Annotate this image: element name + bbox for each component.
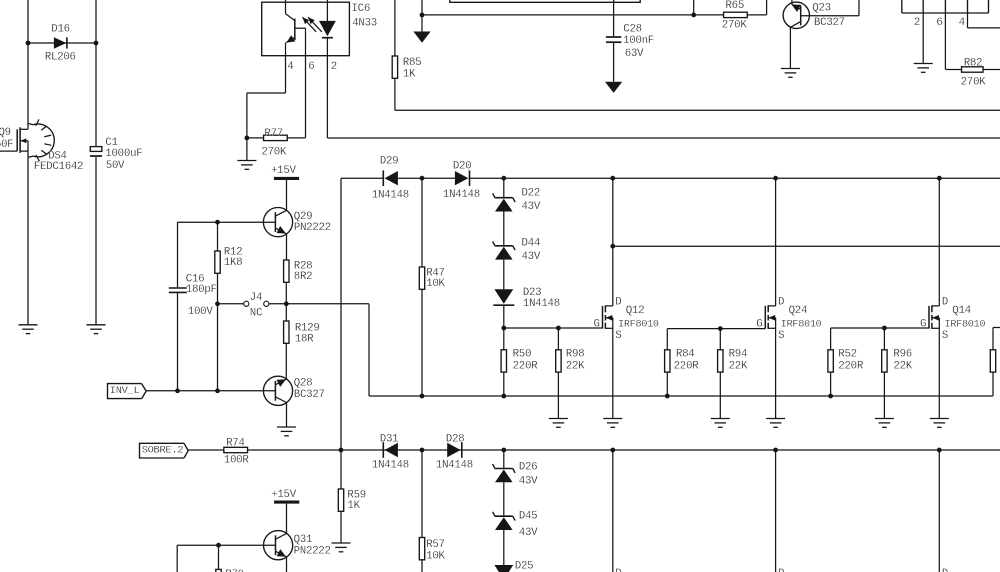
svg-text:270K: 270K <box>722 20 748 32</box>
svg-text:FEDC1642: FEDC1642 <box>34 161 83 173</box>
svg-text:R84: R84 <box>676 349 695 361</box>
svg-text:S: S <box>615 330 621 342</box>
svg-text:C28: C28 <box>623 24 642 36</box>
svg-text:IRF8010: IRF8010 <box>781 319 822 330</box>
svg-text:43V: 43V <box>519 527 538 539</box>
svg-text:1000uF: 1000uF <box>105 148 142 160</box>
svg-text:INV_L: INV_L <box>110 385 140 397</box>
svg-text:D: D <box>778 568 784 572</box>
svg-text:D45: D45 <box>519 511 538 523</box>
svg-text:D26: D26 <box>519 462 538 474</box>
svg-text:6: 6 <box>308 61 314 73</box>
svg-text:R50: R50 <box>513 348 532 360</box>
svg-text:D: D <box>615 568 621 572</box>
svg-text:220R: 220R <box>674 361 700 373</box>
svg-text:2: 2 <box>331 61 337 73</box>
svg-text:IRF8010: IRF8010 <box>945 319 986 330</box>
svg-text:D: D <box>778 297 784 309</box>
svg-text:R85: R85 <box>403 57 422 69</box>
svg-text:22K: 22K <box>566 360 585 372</box>
svg-text:22K: 22K <box>729 361 748 373</box>
svg-text:6: 6 <box>936 17 942 29</box>
svg-text:1N4148: 1N4148 <box>372 459 409 471</box>
svg-text:220R: 220R <box>513 360 539 372</box>
svg-text:D22: D22 <box>522 188 541 200</box>
svg-text:10K: 10K <box>426 551 445 563</box>
svg-text:50V: 50V <box>106 160 125 172</box>
svg-text:PN2222: PN2222 <box>294 222 331 234</box>
svg-text:Q14: Q14 <box>952 305 971 317</box>
svg-text:100nF: 100nF <box>623 35 654 47</box>
svg-text:R65: R65 <box>726 0 745 12</box>
svg-text:NC: NC <box>250 307 263 319</box>
svg-text:18R: 18R <box>295 334 314 346</box>
svg-text:D16: D16 <box>51 24 70 36</box>
svg-text:10K: 10K <box>426 278 445 290</box>
svg-text:IRF8010: IRF8010 <box>618 319 659 330</box>
svg-text:R96: R96 <box>893 349 912 361</box>
svg-text:270K: 270K <box>961 76 987 88</box>
svg-text:1N4148: 1N4148 <box>372 190 409 202</box>
svg-text:R77: R77 <box>264 128 283 140</box>
svg-text:43V: 43V <box>522 251 541 263</box>
svg-text:D31: D31 <box>380 434 399 446</box>
svg-text:R74: R74 <box>226 437 245 449</box>
svg-text:1N4148: 1N4148 <box>443 189 480 201</box>
svg-text:BC327: BC327 <box>814 17 845 29</box>
svg-text:270K: 270K <box>261 146 287 158</box>
svg-text:Q29: Q29 <box>294 211 313 223</box>
svg-text:R129: R129 <box>295 322 320 334</box>
svg-text:Q12: Q12 <box>626 305 645 317</box>
svg-text:43V: 43V <box>522 201 541 213</box>
svg-text:4N33: 4N33 <box>352 17 377 29</box>
svg-text:SOBRE.2: SOBRE.2 <box>142 445 184 457</box>
svg-text:D20: D20 <box>453 161 472 173</box>
svg-text:+15V: +15V <box>271 165 297 177</box>
svg-text:8R2: 8R2 <box>294 271 313 283</box>
svg-text:60F: 60F <box>0 139 13 151</box>
svg-text:PN2222: PN2222 <box>294 545 331 557</box>
svg-text:1N4148: 1N4148 <box>523 298 560 310</box>
svg-text:63V: 63V <box>625 48 644 60</box>
svg-text:180pF: 180pF <box>186 284 217 296</box>
svg-text:D28: D28 <box>446 434 465 446</box>
svg-text:+15V: +15V <box>271 489 297 501</box>
svg-text:D: D <box>942 568 948 572</box>
svg-text:RL206: RL206 <box>45 52 76 64</box>
svg-text:100R: 100R <box>224 455 250 467</box>
svg-text:100V: 100V <box>188 306 214 318</box>
svg-text:4: 4 <box>287 61 293 73</box>
svg-text:R57: R57 <box>426 539 445 551</box>
svg-text:BC327: BC327 <box>294 389 325 401</box>
svg-text:D: D <box>942 297 948 309</box>
svg-text:R82: R82 <box>964 57 983 69</box>
svg-text:G: G <box>594 318 600 330</box>
svg-text:R52: R52 <box>838 349 857 361</box>
svg-text:1N4148: 1N4148 <box>436 459 473 471</box>
svg-text:22K: 22K <box>893 361 912 373</box>
svg-text:S: S <box>778 330 784 342</box>
svg-text:J4: J4 <box>250 292 262 304</box>
svg-text:1K8: 1K8 <box>224 257 243 269</box>
svg-text:R98: R98 <box>566 348 585 360</box>
svg-text:Q28: Q28 <box>294 377 313 389</box>
svg-text:2: 2 <box>914 17 920 29</box>
svg-text:Q9: Q9 <box>0 127 11 139</box>
svg-text:D: D <box>615 297 621 309</box>
svg-text:S: S <box>942 330 948 342</box>
svg-text:43V: 43V <box>519 475 538 487</box>
svg-text:4: 4 <box>959 17 965 29</box>
svg-text:D29: D29 <box>380 155 399 167</box>
svg-text:D25: D25 <box>515 561 534 572</box>
svg-text:Q23: Q23 <box>812 2 831 14</box>
svg-text:IC6: IC6 <box>352 3 371 15</box>
svg-text:1K: 1K <box>347 500 360 512</box>
svg-text:Q24: Q24 <box>789 305 808 317</box>
svg-text:R94: R94 <box>729 349 748 361</box>
svg-text:220R: 220R <box>838 361 864 373</box>
svg-text:D44: D44 <box>522 237 541 249</box>
svg-text:1K: 1K <box>403 69 416 81</box>
